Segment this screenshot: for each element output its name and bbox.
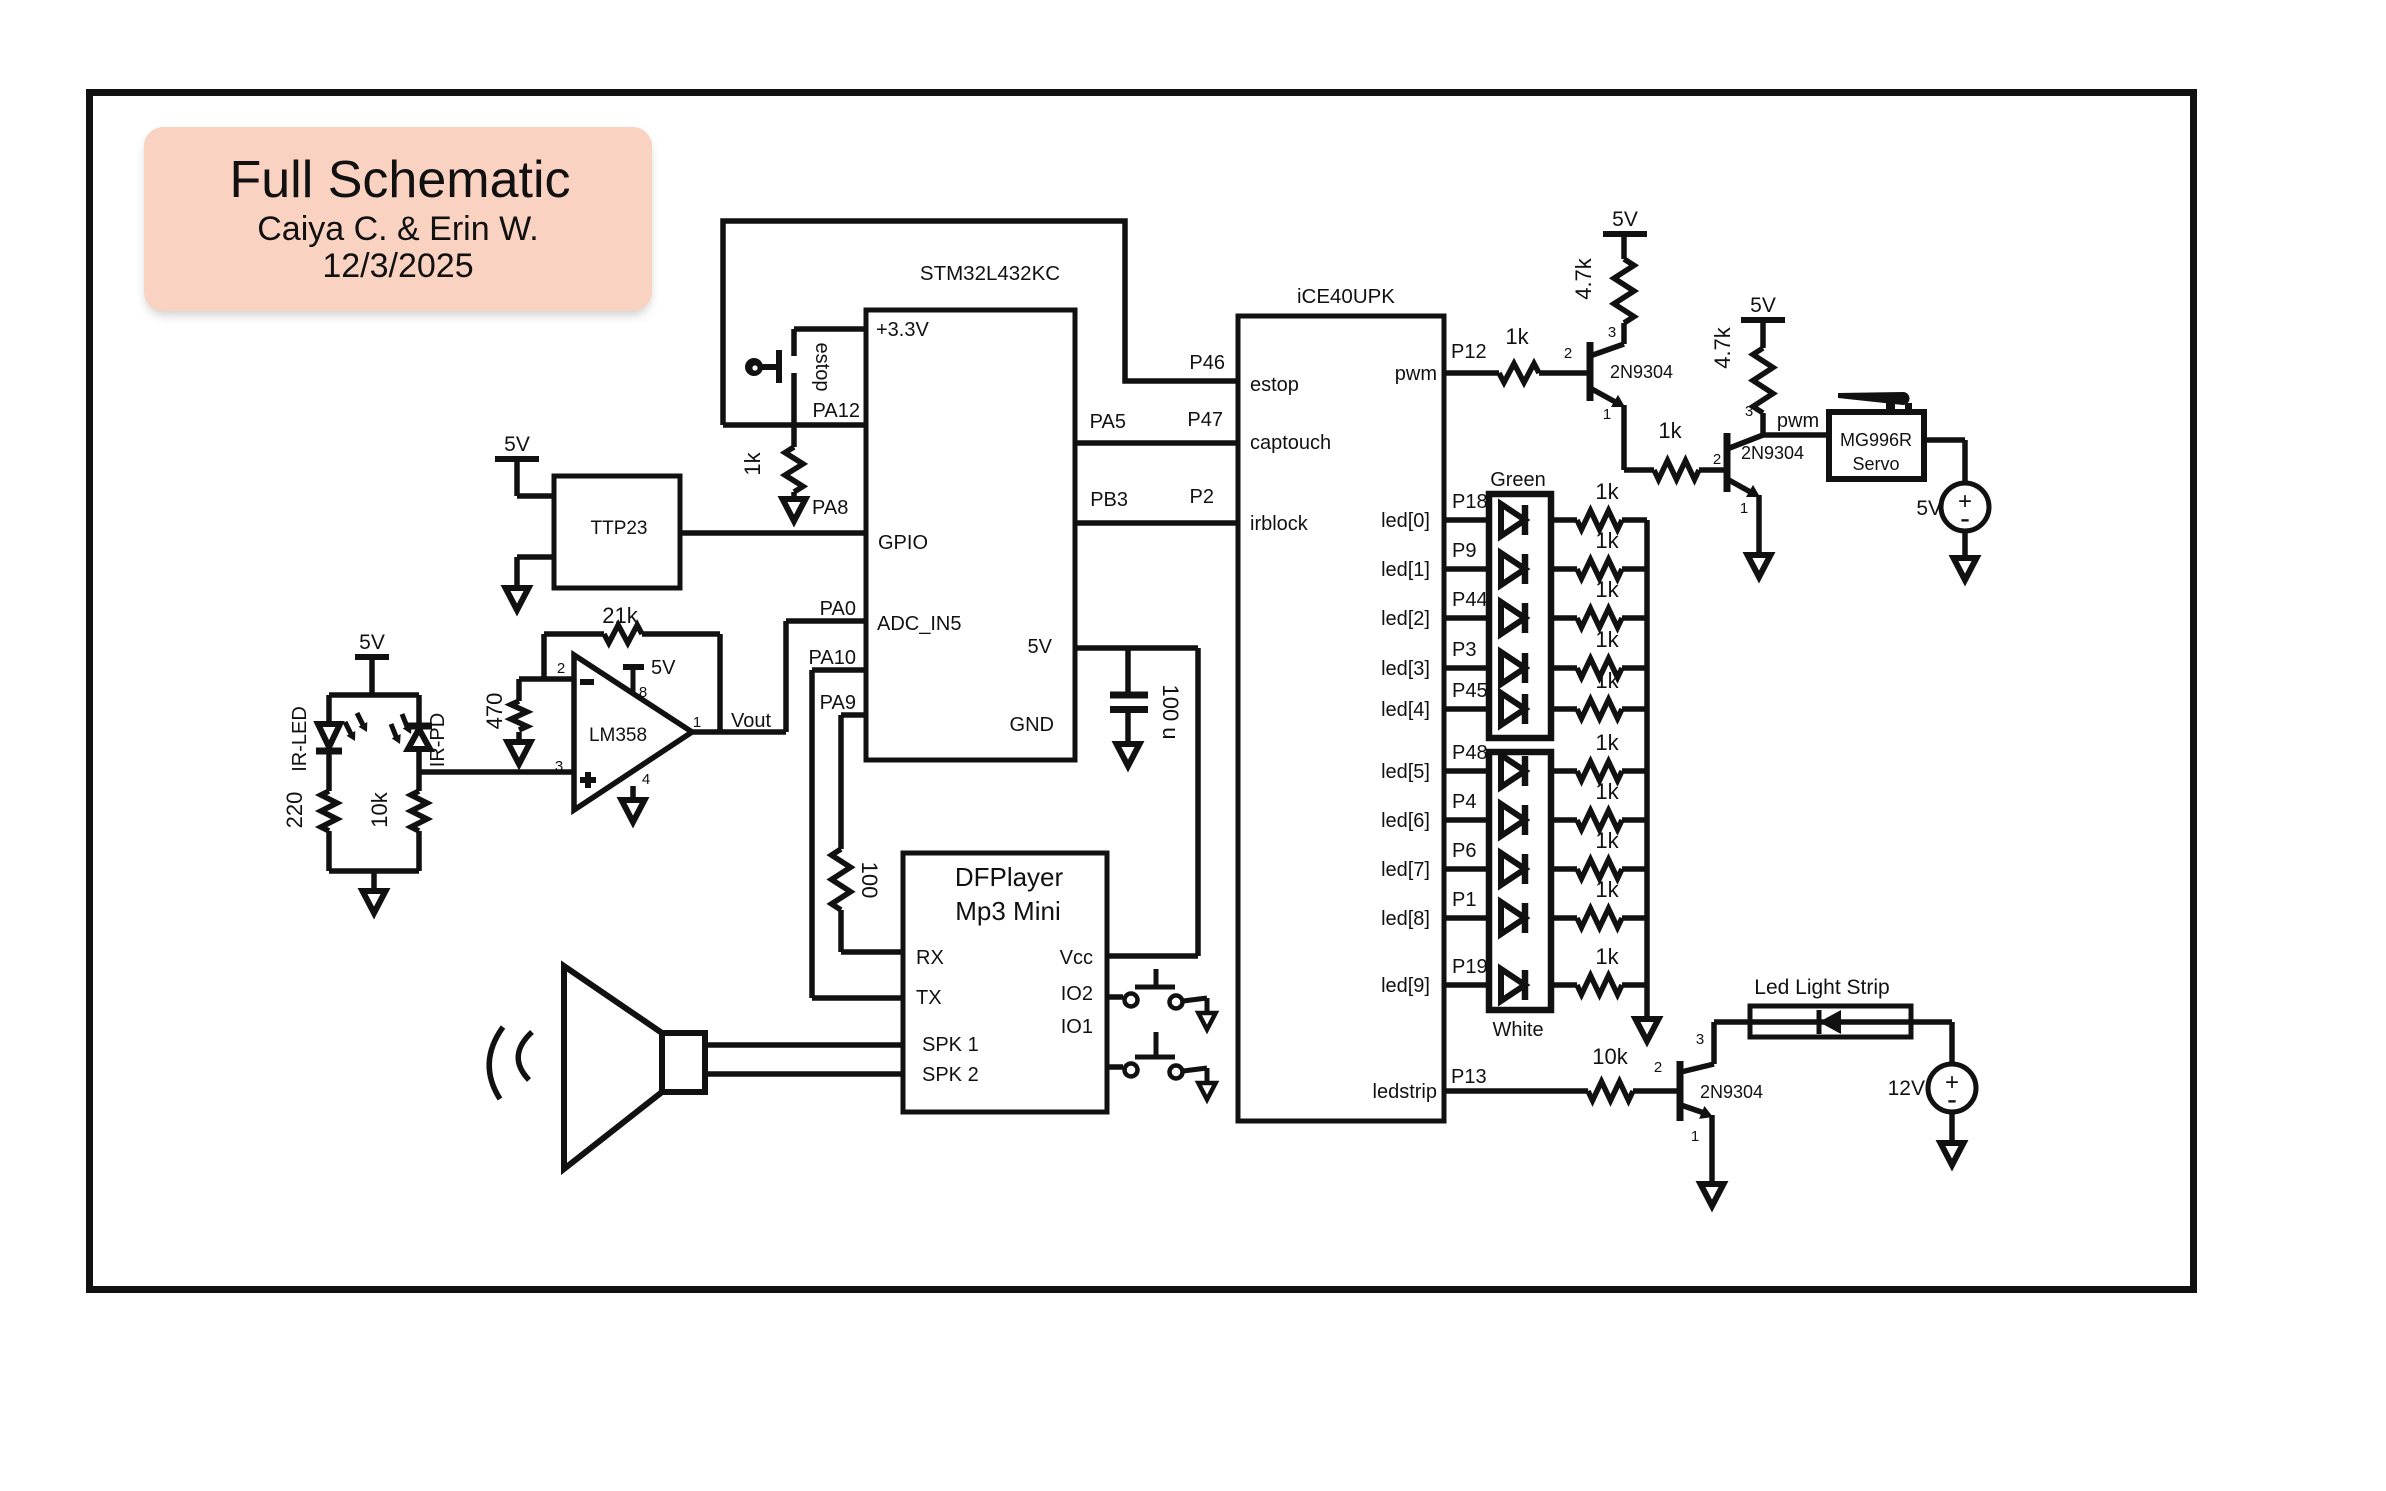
svg-text:GND: GND xyxy=(1010,714,1054,736)
svg-text:led[9]: led[9] xyxy=(1381,975,1430,997)
svg-text:led[0]: led[0] xyxy=(1381,510,1430,532)
svg-text:Caiya C. & Erin W.: Caiya C. & Erin W. xyxy=(257,210,539,248)
svg-text:led[2]: led[2] xyxy=(1381,608,1430,630)
svg-text:2: 2 xyxy=(1564,345,1572,362)
svg-text:4.7k: 4.7k xyxy=(1710,326,1735,369)
svg-text:PA0: PA0 xyxy=(820,598,856,620)
svg-text:5V: 5V xyxy=(1750,294,1776,317)
svg-text:1k: 1k xyxy=(1595,730,1619,755)
svg-text:1k: 1k xyxy=(1595,944,1619,969)
svg-text:GPIO: GPIO xyxy=(878,532,928,554)
svg-text:1k: 1k xyxy=(1595,577,1619,602)
svg-text:1k: 1k xyxy=(1595,779,1619,804)
svg-text:P12: P12 xyxy=(1451,341,1487,363)
svg-text:Vcc: Vcc xyxy=(1060,947,1093,969)
svg-text:1: 1 xyxy=(1740,500,1748,517)
svg-text:P6: P6 xyxy=(1452,840,1476,862)
svg-text:-: - xyxy=(1960,502,1970,535)
svg-text:1k: 1k xyxy=(1658,418,1682,443)
svg-text:led[8]: led[8] xyxy=(1381,908,1430,930)
svg-text:P1: P1 xyxy=(1452,889,1476,911)
svg-text:3: 3 xyxy=(555,758,563,775)
svg-text:2N9304: 2N9304 xyxy=(1610,362,1673,382)
svg-text:1k: 1k xyxy=(1595,828,1619,853)
svg-text:8: 8 xyxy=(639,684,647,701)
svg-text:5V: 5V xyxy=(651,657,676,679)
svg-text:P19: P19 xyxy=(1452,956,1488,978)
svg-text:Green: Green xyxy=(1490,469,1546,491)
svg-text:1k: 1k xyxy=(1595,627,1619,652)
svg-text:10k: 10k xyxy=(1592,1044,1628,1069)
svg-text:470: 470 xyxy=(482,693,507,730)
svg-text:12/3/2025: 12/3/2025 xyxy=(322,247,473,285)
svg-text:PA8: PA8 xyxy=(812,497,848,519)
svg-text:led[4]: led[4] xyxy=(1381,699,1430,721)
svg-text:STM32L432KC: STM32L432KC xyxy=(920,262,1060,285)
svg-text:5V: 5V xyxy=(504,433,530,456)
svg-text:Vout: Vout xyxy=(731,710,771,732)
svg-text:MG996R: MG996R xyxy=(1840,430,1912,450)
svg-text:1k: 1k xyxy=(1595,668,1619,693)
svg-text:1: 1 xyxy=(693,714,701,731)
svg-text:pwm: pwm xyxy=(1395,363,1437,385)
svg-text:led[1]: led[1] xyxy=(1381,559,1430,581)
svg-text:PA9: PA9 xyxy=(820,692,856,714)
svg-text:TX: TX xyxy=(916,987,942,1009)
svg-text:5V: 5V xyxy=(359,631,385,654)
svg-text:1k: 1k xyxy=(1595,528,1619,553)
svg-text:White: White xyxy=(1492,1019,1543,1041)
svg-text:3: 3 xyxy=(1745,403,1753,420)
svg-text:PB3: PB3 xyxy=(1090,489,1128,511)
svg-text:RX: RX xyxy=(916,947,944,969)
svg-text:2: 2 xyxy=(557,660,565,677)
svg-text:2: 2 xyxy=(1713,451,1721,468)
svg-text:P2: P2 xyxy=(1190,486,1214,508)
svg-text:P46: P46 xyxy=(1189,352,1225,374)
svg-text:DFPlayer: DFPlayer xyxy=(955,862,1064,892)
svg-text:Led Light Strip: Led Light Strip xyxy=(1754,976,1889,999)
svg-text:2: 2 xyxy=(1654,1059,1662,1076)
svg-text:12V: 12V xyxy=(1888,1077,1925,1100)
svg-text:P4: P4 xyxy=(1452,791,1476,813)
svg-text:iCE40UPK: iCE40UPK xyxy=(1297,285,1395,308)
svg-text:Servo: Servo xyxy=(1852,454,1899,474)
svg-text:P48: P48 xyxy=(1452,742,1488,764)
svg-text:led[7]: led[7] xyxy=(1381,859,1430,881)
svg-text:pwm: pwm xyxy=(1777,410,1819,432)
svg-text:led[3]: led[3] xyxy=(1381,658,1430,680)
svg-text:captouch: captouch xyxy=(1250,432,1331,454)
svg-text:1k: 1k xyxy=(1595,877,1619,902)
svg-text:led[6]: led[6] xyxy=(1381,810,1430,832)
svg-text:5V: 5V xyxy=(1028,636,1053,658)
svg-text:10k: 10k xyxy=(367,791,392,827)
svg-text:LM358: LM358 xyxy=(589,725,647,746)
svg-text:5V: 5V xyxy=(1612,208,1638,231)
svg-text:P44: P44 xyxy=(1452,589,1488,611)
svg-text:100: 100 xyxy=(857,862,882,899)
svg-text:+3.3V: +3.3V xyxy=(876,319,929,341)
svg-text:led[5]: led[5] xyxy=(1381,761,1430,783)
svg-text:1: 1 xyxy=(1603,406,1611,423)
svg-text:Mp3 Mini: Mp3 Mini xyxy=(955,896,1060,926)
svg-text:1k: 1k xyxy=(1505,324,1529,349)
svg-text:ledstrip: ledstrip xyxy=(1373,1081,1437,1103)
svg-text:4: 4 xyxy=(642,771,650,788)
svg-text:-: - xyxy=(1947,1083,1957,1116)
svg-text:100 u: 100 u xyxy=(1158,684,1183,739)
svg-text:2N9304: 2N9304 xyxy=(1700,1082,1763,1102)
svg-text:estop: estop xyxy=(1250,374,1299,396)
svg-text:P45: P45 xyxy=(1452,680,1488,702)
svg-text:P13: P13 xyxy=(1451,1066,1487,1088)
svg-text:1k: 1k xyxy=(1595,479,1619,504)
svg-text:4.7k: 4.7k xyxy=(1571,257,1596,300)
svg-text:P3: P3 xyxy=(1452,639,1476,661)
svg-text:3: 3 xyxy=(1608,324,1616,341)
svg-text:P18: P18 xyxy=(1452,491,1488,513)
svg-text:IO2: IO2 xyxy=(1061,983,1093,1005)
svg-text:220: 220 xyxy=(282,792,307,829)
svg-text:irblock: irblock xyxy=(1250,513,1309,535)
svg-text:TTP23: TTP23 xyxy=(590,518,647,539)
svg-text:SPK 2: SPK 2 xyxy=(922,1064,979,1086)
svg-text:Full Schematic: Full Schematic xyxy=(230,151,571,209)
svg-text:PA12: PA12 xyxy=(813,400,860,422)
svg-text:IR-LED: IR-LED xyxy=(289,706,311,772)
svg-text:2N9304: 2N9304 xyxy=(1741,443,1804,463)
svg-text:SPK 1: SPK 1 xyxy=(922,1034,979,1056)
svg-text:estop: estop xyxy=(811,343,833,392)
svg-text:1: 1 xyxy=(1691,1128,1699,1145)
svg-text:IR-PD: IR-PD xyxy=(427,713,449,767)
svg-text:1k: 1k xyxy=(740,451,765,475)
svg-text:ADC_IN5: ADC_IN5 xyxy=(877,613,961,635)
svg-text:P9: P9 xyxy=(1452,540,1476,562)
svg-text:P47: P47 xyxy=(1187,409,1223,431)
svg-text:IO1: IO1 xyxy=(1061,1016,1093,1038)
svg-text:5V: 5V xyxy=(1916,497,1942,520)
svg-text:3: 3 xyxy=(1696,1031,1704,1048)
svg-text:PA10: PA10 xyxy=(809,647,856,669)
svg-text:PA5: PA5 xyxy=(1090,411,1126,433)
svg-text:21k: 21k xyxy=(602,603,638,628)
